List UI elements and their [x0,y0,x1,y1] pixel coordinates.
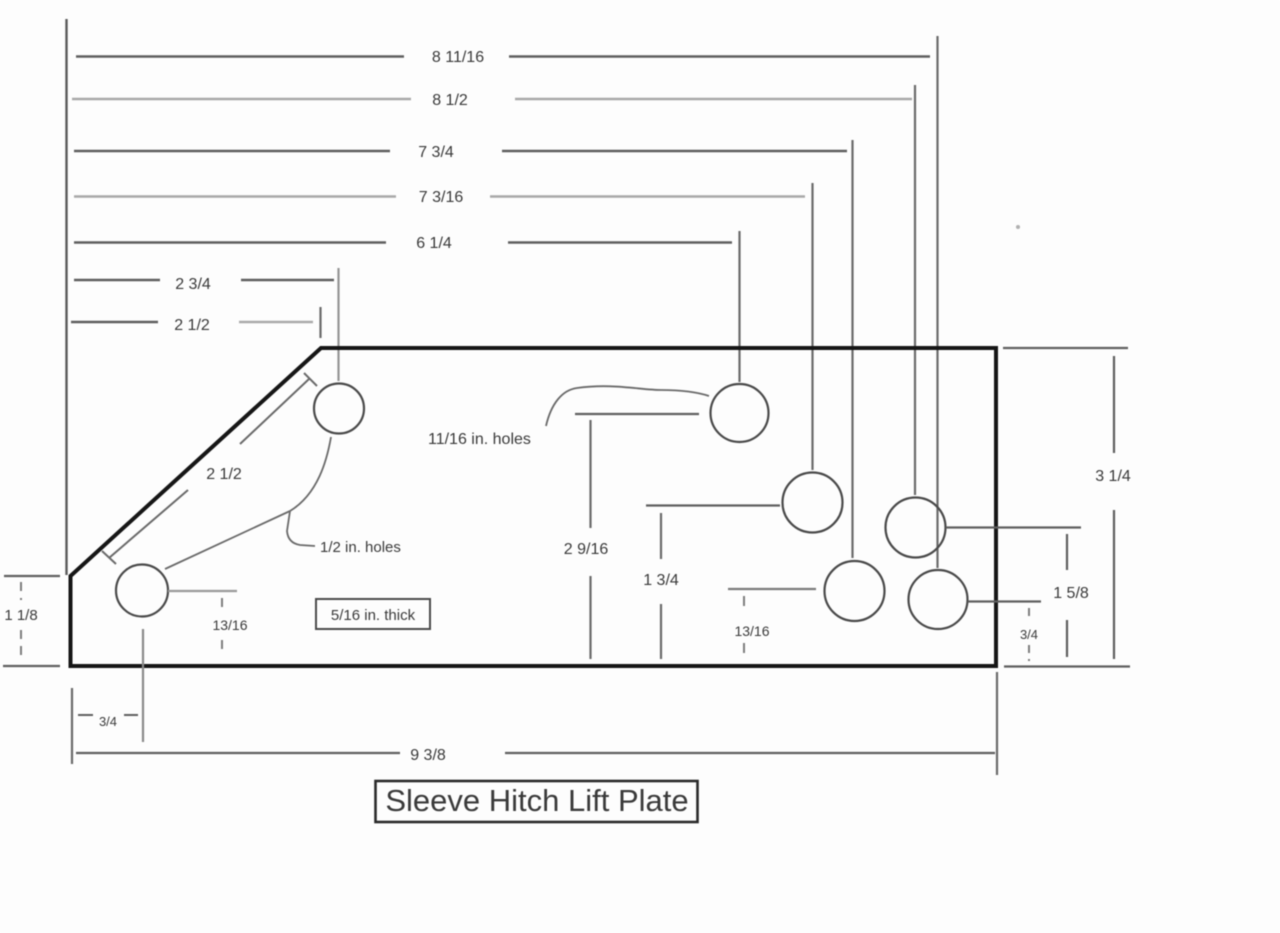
svg-text:2 1/2: 2 1/2 [174,317,210,334]
svg-text:2 1/2: 2 1/2 [206,466,242,483]
svg-text:3 1/4: 3 1/4 [1095,468,1131,485]
svg-text:1 1/8: 1 1/8 [4,607,37,624]
svg-text:7 3/4: 7 3/4 [418,144,454,161]
svg-text:2 3/4: 2 3/4 [175,276,211,293]
svg-text:5/16 in. thick: 5/16 in. thick [331,607,416,624]
svg-text:11/16 in. holes: 11/16 in. holes [428,431,531,448]
svg-text:8 11/16: 8 11/16 [432,49,484,66]
svg-text:8 1/2: 8 1/2 [432,92,468,109]
svg-text:1 5/8: 1 5/8 [1053,585,1089,602]
svg-text:2 9/16: 2 9/16 [564,541,609,558]
svg-text:6 1/4: 6 1/4 [416,235,452,252]
svg-text:7 3/16: 7 3/16 [419,189,464,206]
svg-text:Sleeve Hitch Lift Plate: Sleeve Hitch Lift Plate [385,783,688,818]
svg-text:9 3/8: 9 3/8 [410,747,446,764]
svg-text:3/4: 3/4 [1020,627,1038,642]
svg-text:3/4: 3/4 [99,714,117,729]
svg-text:1/2 in. holes: 1/2 in. holes [320,539,401,556]
svg-text:13/16: 13/16 [212,617,247,633]
svg-text:13/16: 13/16 [734,623,769,639]
svg-text:1 3/4: 1 3/4 [643,572,679,589]
